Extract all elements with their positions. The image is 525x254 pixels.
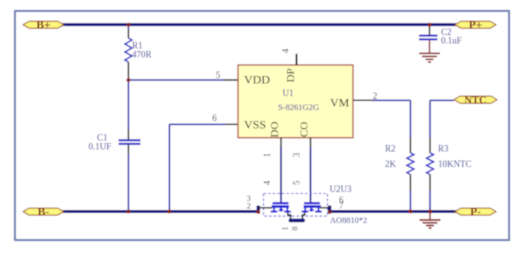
svg-text:0.1UF: 0.1UF: [89, 141, 112, 151]
svg-text:2: 2: [373, 91, 378, 101]
svg-text:S-8261G2G: S-8261G2G: [278, 102, 319, 112]
wire C1 top: [127, 80, 129, 140]
svg-text:4: 4: [262, 180, 272, 185]
svg-text:10KNTC: 10KNTC: [438, 159, 472, 169]
svg-text:CO: CO: [299, 122, 311, 137]
port P+: [455, 20, 496, 32]
svg-text:R2: R2: [385, 144, 396, 154]
svg-text:P+: P+: [469, 20, 483, 32]
ground below C2: [419, 40, 440, 62]
svg-text:U1: U1: [283, 88, 294, 98]
svg-text:6: 6: [212, 113, 217, 123]
wire VM pin2: [353, 91, 410, 138]
capacitor C1: [89, 132, 141, 151]
wire rail stub right of U3: [320, 195, 344, 213]
wire rail stub left of U2: [247, 194, 272, 213]
port B-: [23, 207, 64, 219]
svg-text:2: 2: [247, 201, 251, 210]
junction node C1 bottom: [126, 210, 130, 214]
resistor R3: [427, 138, 472, 190]
svg-text:NTC: NTC: [464, 95, 486, 106]
svg-text:4: 4: [281, 48, 291, 53]
transistor Q left (U2): [271, 203, 291, 211]
junction node R3 bottom: [428, 210, 432, 214]
port B+: [23, 20, 64, 32]
wire R3 bottom: [429, 190, 431, 212]
svg-text:1: 1: [281, 227, 290, 231]
wire DO pin1 to Q gate: [262, 138, 281, 203]
junction node rail left FET: [256, 210, 260, 214]
junction node R1/VDD/C1: [126, 78, 130, 82]
junction node top rail C2: [428, 23, 432, 27]
svg-text:8: 8: [291, 227, 300, 231]
resistor R1: [125, 38, 152, 62]
svg-text:VDD: VDD: [244, 72, 270, 86]
junction node R2 bottom: [409, 210, 413, 214]
junction node VSS bottom: [168, 210, 172, 214]
svg-text:7: 7: [339, 200, 344, 210]
svg-text:DO: DO: [269, 122, 281, 138]
capacitor C2: [419, 27, 462, 46]
svg-text:B-: B-: [38, 207, 50, 219]
dashed box U2U3: [264, 184, 368, 225]
svg-text:R3: R3: [438, 144, 449, 154]
svg-text:U2U3: U2U3: [330, 184, 352, 194]
wire CO pin3 to Q gate: [292, 138, 311, 203]
wire R1 top stub: [127, 25, 129, 38]
wire VDD pin5 horizontal: [128, 70, 238, 80]
wire P- rail bottom right: [330, 210, 457, 213]
wire R1 bottom to node: [127, 62, 129, 80]
junction node top rail R1: [126, 23, 130, 27]
pin 4 DP stub: [281, 48, 297, 65]
wire NTC to R3: [430, 100, 454, 138]
junction node rail right FET: [328, 210, 332, 214]
port NTC: [454, 95, 497, 106]
wire C2 top stub: [429, 25, 431, 35]
svg-text:2K: 2K: [385, 159, 397, 169]
svg-text:VM: VM: [330, 95, 350, 109]
wire C1 bottom: [127, 145, 129, 212]
svg-text:AO8810*2: AO8810*2: [330, 216, 367, 225]
svg-text:0.1uF: 0.1uF: [441, 35, 462, 45]
svg-text:B+: B+: [36, 20, 50, 32]
wire B+ rail (top): [60, 23, 456, 26]
ground below R3 at P- rail: [420, 212, 441, 229]
wire B- rail bottom left: [60, 210, 259, 213]
wire common source bar: [281, 212, 306, 230]
wire R2 bottom: [409, 190, 411, 212]
svg-text:VSS: VSS: [244, 118, 266, 132]
resistor R2: [385, 138, 414, 190]
svg-text:5: 5: [216, 70, 221, 80]
svg-text:DP: DP: [285, 68, 297, 82]
svg-text:3: 3: [292, 152, 302, 157]
svg-text:5: 5: [292, 180, 302, 185]
wire VSS pin6: [169, 113, 238, 212]
port P-: [455, 207, 496, 219]
svg-text:470R: 470R: [132, 50, 152, 60]
svg-text:1: 1: [262, 153, 272, 158]
svg-text:P-: P-: [470, 207, 481, 219]
transistor Q right (U3): [302, 203, 322, 211]
op-amp U1 S-8261G2G body: [238, 65, 353, 138]
